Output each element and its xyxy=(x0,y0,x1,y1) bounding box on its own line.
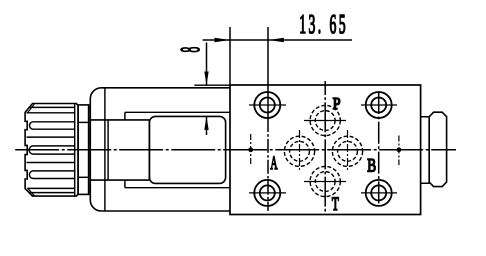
port B vertical tick xyxy=(347,130,349,172)
dimension 13.65 left arrow xyxy=(215,38,231,42)
mounting hole H2 top-right outer xyxy=(366,92,392,118)
hole H1 horizontal tick xyxy=(249,104,286,106)
knob rib line 5 xyxy=(30,192,75,194)
dimension 13.65 line xyxy=(203,39,352,41)
port A vertical tick xyxy=(299,130,301,172)
P-T vertical centerline xyxy=(324,81,326,214)
nut N1 between knob and body xyxy=(78,105,89,194)
mounting hole H1 inner xyxy=(260,98,275,113)
mounting hole H2 inner xyxy=(371,98,386,113)
knob face inner vertical xyxy=(74,104,76,196)
knob groove capsule 1 xyxy=(30,122,75,129)
body inner vertical V1 xyxy=(104,88,106,211)
svg-text:8: 8 xyxy=(174,47,205,53)
port A outer dashed circle xyxy=(284,136,314,166)
left node dot xyxy=(248,147,253,152)
coil C1 rounded rect xyxy=(149,116,225,183)
valve block VB1 xyxy=(230,85,421,215)
dimension 8 up arrow xyxy=(204,116,208,129)
port P outer dashed circle xyxy=(310,105,340,135)
knob rib line 3 xyxy=(27,162,75,164)
step vertical at L2 end xyxy=(124,180,126,188)
body inner bottom line L2 xyxy=(125,187,230,189)
label A xyxy=(270,154,277,174)
right node dot xyxy=(397,147,402,152)
knob rib line 1b xyxy=(27,112,75,114)
right node vertical tick xyxy=(398,136,400,166)
port T horizontal tick xyxy=(304,181,346,183)
knob chamfer line top-left xyxy=(28,104,35,113)
port B inner dashed circle xyxy=(338,141,358,161)
svg-text:13. 65: 13. 65 xyxy=(299,9,345,39)
left node vertical tick xyxy=(250,134,252,165)
dimension 8 vertical line upper xyxy=(206,43,208,86)
body inner top line L1 xyxy=(125,111,230,113)
knob chamfer line bottom-left xyxy=(28,188,35,195)
hole H2 horizontal tick xyxy=(361,104,397,106)
right holes vertical centerline xyxy=(378,92,380,206)
mounting hole H3 bottom-left outer xyxy=(254,180,280,206)
nut flat line upper xyxy=(78,121,89,123)
port T outer dashed circle xyxy=(310,166,340,196)
port T inner dashed circle xyxy=(315,172,335,192)
step vertical at L1 end xyxy=(124,112,126,120)
solenoid body B1 outline xyxy=(90,88,230,211)
label P xyxy=(333,95,341,114)
hole H3 horizontal tick xyxy=(249,192,286,194)
label T xyxy=(332,194,339,215)
knob rib line 2 xyxy=(27,136,75,138)
port B outer dashed circle xyxy=(332,136,362,166)
mounting hole H1 top-left outer xyxy=(254,92,280,118)
nameplate tab line over body xyxy=(194,84,230,86)
extension line left xyxy=(229,27,231,85)
mounting hole H4 bottom-right outer xyxy=(366,180,392,206)
knob rib line 1 xyxy=(29,106,75,108)
knob rib line 4 xyxy=(27,187,74,189)
mounting hole H3 inner xyxy=(260,185,275,200)
body inner vertical V2 xyxy=(107,120,109,180)
knob groove capsule 2 xyxy=(29,146,75,154)
knob K1 outline xyxy=(25,104,78,197)
nut flat line lower xyxy=(78,176,89,178)
svg-text:T: T xyxy=(332,194,339,215)
hole H4 horizontal tick xyxy=(361,192,397,194)
knob groove capsule 3 xyxy=(29,171,74,179)
extension line right through hole H1 xyxy=(267,27,269,118)
svg-text:A: A xyxy=(270,154,277,174)
end neck plate xyxy=(421,117,430,184)
armature tube rect T1 xyxy=(90,120,149,180)
wire main horizontal centerline xyxy=(15,149,456,151)
centerline through holes H1-H3 xyxy=(267,118,269,211)
svg-text:P: P xyxy=(333,95,341,114)
dimension 8 down arrow xyxy=(204,72,208,86)
label B xyxy=(367,154,376,176)
port P inner dashed circle xyxy=(315,111,335,131)
mounting hole H4 inner xyxy=(371,185,386,200)
dimension text 13.65 xyxy=(299,9,345,39)
end cap EC1 xyxy=(429,112,446,186)
svg-text:B: B xyxy=(367,154,376,176)
dimension 8 vertical line lower xyxy=(206,116,208,135)
dimension 13.65 right arrow xyxy=(268,38,284,42)
port P horizontal tick xyxy=(304,120,346,122)
dimension text 8 rotated xyxy=(174,47,205,53)
port A inner dashed circle xyxy=(290,141,310,161)
